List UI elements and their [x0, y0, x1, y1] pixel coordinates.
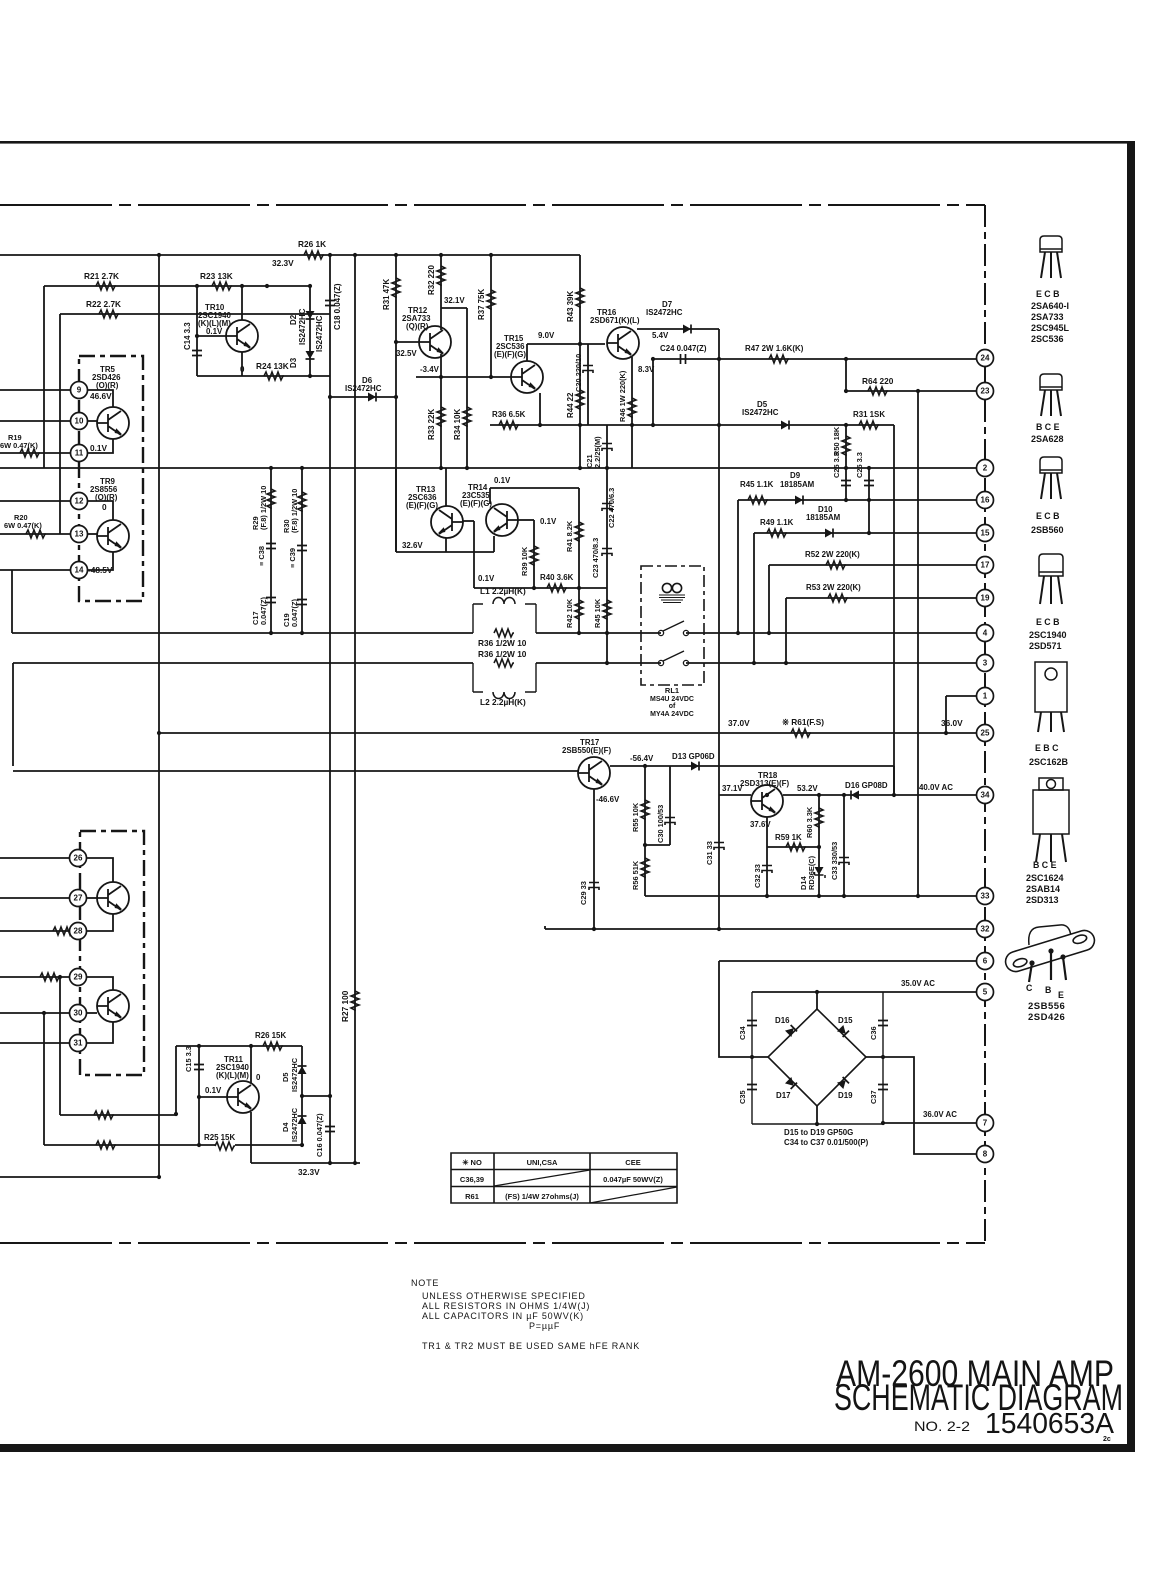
wire [579, 425, 581, 468]
terminal 33 [977, 888, 994, 905]
page frame bottom border [0, 1444, 1135, 1452]
svg-text:R44 22: R44 22 [566, 392, 575, 418]
package TO-92 group3 [1040, 457, 1062, 499]
resistor R32 220 [437, 266, 445, 286]
diode D16 bridge [785, 1025, 797, 1037]
capacitor C21 [602, 444, 612, 452]
svg-text:2: 2 [983, 464, 988, 473]
wire to TR5 collector [88, 390, 113, 407]
svg-text:32.3V: 32.3V [272, 258, 294, 268]
resistor R60 3.3K [815, 808, 823, 828]
resistor R42 10K [575, 600, 583, 620]
junction [328, 395, 332, 399]
capacitor C22 [602, 504, 612, 512]
svg-text:C29 33: C29 33 [579, 881, 588, 905]
wire [737, 500, 739, 633]
junction [197, 1143, 201, 1147]
resistor R47 [769, 355, 789, 363]
resistor R56 51K [641, 858, 649, 878]
chassis boundary top (dash-dot) [0, 204, 985, 206]
svg-text:IS2472HC: IS2472HC [742, 408, 779, 417]
junction [328, 253, 332, 257]
svg-text:(F.8) 1/2W 10: (F.8) 1/2W 10 [290, 489, 299, 533]
svg-text:(E)(F)(G): (E)(F)(G) [406, 501, 438, 510]
svg-text:R46 1W 220(K): R46 1W 220(K) [618, 370, 627, 422]
svg-text:R22 2.7K: R22 2.7K [86, 299, 121, 309]
wire [309, 286, 311, 376]
resistor R23 [212, 282, 232, 290]
terminal 17 [977, 557, 994, 574]
resistor R19 [20, 449, 40, 457]
junction [42, 1011, 46, 1015]
wire TR11 collector [250, 1046, 252, 1083]
wire [330, 396, 396, 398]
capacitor C37 [878, 1085, 888, 1090]
wire [235, 1144, 302, 1146]
junction [817, 894, 821, 898]
svg-text:0.1V: 0.1V [494, 476, 511, 485]
svg-text:C34 to C37 0.01/500(P): C34 to C37 0.01/500(P) [784, 1138, 869, 1147]
svg-text:2SAB14: 2SAB14 [1026, 884, 1060, 894]
junction [578, 342, 582, 346]
diode D7 [683, 325, 691, 334]
svg-text:R36 1/2W 10: R36 1/2W 10 [478, 638, 527, 648]
wire 37V line to terminal 25 [160, 732, 977, 734]
wire [816, 1106, 818, 1124]
svg-text:R31 47K: R31 47K [382, 279, 391, 310]
wire TR13 base [463, 520, 474, 522]
junction [643, 843, 647, 847]
wire [645, 844, 670, 846]
terminal 16 [977, 492, 994, 509]
svg-text:C30 100/53: C30 100/53 [656, 805, 665, 843]
wire to terminal 6 [719, 960, 977, 962]
resistor R31 15K [859, 421, 879, 429]
resistor R59 1K [786, 843, 806, 851]
wire [631, 425, 633, 468]
svg-text:-56.4V: -56.4V [630, 754, 654, 763]
wire [536, 632, 661, 634]
capacitor C39 [297, 546, 307, 551]
junction [881, 1121, 885, 1125]
svg-text:10: 10 [75, 417, 84, 426]
junction [489, 375, 493, 379]
svg-text:2SA640-I: 2SA640-I [1031, 301, 1069, 311]
svg-text:0.1V: 0.1V [206, 327, 223, 336]
wire to terminal 9 [0, 389, 70, 391]
svg-text:27: 27 [74, 894, 83, 903]
junction [784, 661, 788, 665]
terminal 27 [70, 890, 87, 907]
wire to TR6 collector [87, 858, 113, 882]
wire to terminal 8 [866, 1057, 977, 1154]
wire [60, 1114, 176, 1116]
wire [843, 795, 845, 896]
capacitor C16 [325, 1127, 335, 1132]
terminal 34 [977, 787, 994, 804]
junction [157, 731, 161, 735]
svg-text:2SB556: 2SB556 [1028, 1001, 1065, 1012]
junction [605, 466, 609, 470]
svg-text:P=µµF: P=µµF [529, 1321, 560, 1331]
junction [249, 1044, 253, 1048]
capacitor C25 [841, 481, 851, 486]
wire [644, 766, 646, 896]
svg-text:C34: C34 [738, 1026, 747, 1040]
svg-text:(E)(F)(G): (E)(F)(G) [494, 350, 526, 359]
svg-text:R21 2.7K: R21 2.7K [84, 271, 119, 281]
svg-text:E: E [1058, 990, 1064, 1000]
resistor R53 [828, 594, 848, 602]
wire TR17 emitter [610, 765, 894, 767]
transistor TR16 [607, 327, 639, 359]
junction [605, 661, 609, 665]
wire R40 [474, 587, 607, 589]
svg-text:UNI,CSA: UNI,CSA [527, 1158, 558, 1167]
wire C25b [868, 468, 870, 533]
svg-text:(O)(R): (O)(R) [95, 493, 118, 502]
wire R45/D9 to terminal 16 [738, 499, 977, 501]
wire [241, 352, 243, 376]
junction [308, 284, 312, 288]
junction [717, 357, 721, 361]
terminal 7 [977, 1115, 994, 1132]
resistor R55 10K [641, 800, 649, 820]
junction [439, 375, 443, 379]
svg-text:B: B [1045, 985, 1051, 995]
resistor R24 [264, 372, 284, 380]
page frame right border [1127, 141, 1135, 1452]
capacitor C24 [681, 354, 686, 364]
terminal 1 [977, 688, 994, 705]
svg-text:(E)(F)(G): (E)(F)(G) [460, 499, 492, 508]
junction [300, 631, 304, 635]
svg-text:C25 3.3: C25 3.3 [832, 452, 841, 478]
wire TR13 collector [445, 468, 447, 506]
terminal 11 [71, 445, 88, 462]
svg-text:-3.4V: -3.4V [420, 365, 440, 374]
svg-text:R26 15K: R26 15K [255, 1031, 286, 1040]
junction [328, 1094, 332, 1098]
svg-text:B C E: B C E [1036, 422, 1060, 432]
svg-text:9.0V: 9.0V [538, 331, 555, 340]
junction [592, 927, 596, 931]
resistor R45 10K [603, 600, 611, 620]
zener diode D14 [815, 867, 826, 878]
diode D10 [825, 529, 833, 538]
svg-text:IS2472HC: IS2472HC [298, 308, 307, 345]
diode D5b [298, 1066, 307, 1074]
svg-text:R33 22K: R33 22K [427, 409, 436, 440]
chassis boundary right (dash-dot) [984, 205, 986, 1243]
wire TR6 base [87, 897, 97, 899]
svg-text:D4: D4 [281, 1122, 290, 1132]
junction [577, 586, 581, 590]
terminal 8 [977, 1146, 994, 1163]
svg-text:C36,39: C36,39 [460, 1175, 484, 1184]
svg-text:25: 25 [981, 729, 990, 738]
svg-text:13: 13 [75, 530, 84, 539]
svg-text:36.0V: 36.0V [941, 718, 963, 728]
wire to C16 [302, 1095, 330, 1097]
capacitor C31 [714, 843, 724, 851]
diode D6 [368, 393, 376, 402]
svg-text:(Q)(R): (Q)(R) [406, 322, 429, 331]
resistor R26 [304, 251, 324, 259]
junction [58, 975, 62, 979]
wire to terminal 4 [686, 632, 977, 634]
wire to terminal 31 [0, 1042, 69, 1044]
resistor R39 10K [530, 546, 538, 566]
svg-text:R32 220: R32 220 [427, 265, 436, 295]
terminal 10 [71, 413, 88, 430]
wire TR18 base [719, 794, 751, 796]
wire TR16 collector to D7 [637, 328, 719, 330]
junction [538, 423, 542, 427]
package TO-220 group6 [1033, 778, 1069, 862]
junction [844, 466, 848, 470]
resistor R52 [826, 561, 846, 569]
wire long vertical D [718, 329, 720, 929]
terminal 24 [977, 350, 994, 367]
resistor R36a [494, 629, 514, 637]
capacitor C32 [762, 866, 772, 874]
svg-text:(O)(R): (O)(R) [96, 381, 119, 390]
svg-text:12: 12 [75, 497, 84, 506]
wire [196, 286, 198, 376]
junction [300, 1143, 304, 1147]
junction [197, 1044, 201, 1048]
transistor TR10 [226, 320, 258, 352]
transistor TR15 [511, 361, 543, 393]
svg-text:0: 0 [256, 1073, 261, 1082]
dashed box lower channel [80, 831, 144, 1075]
wire [785, 598, 787, 663]
spec table [451, 1153, 677, 1203]
svg-text:5: 5 [983, 988, 988, 997]
wire R21-R23 [44, 285, 310, 287]
wire TR15 base [416, 376, 511, 378]
inductor L2 box [473, 663, 536, 692]
wire TR17 base [13, 770, 578, 772]
junction [578, 423, 582, 427]
resistor R27 [351, 991, 359, 1011]
transistor TR13 [431, 506, 463, 538]
svg-text:0.047(Z): 0.047(Z) [259, 597, 268, 625]
svg-text:0.1V: 0.1V [90, 443, 108, 453]
svg-text:36.0V AC: 36.0V AC [923, 1110, 957, 1119]
svg-text:NOTE: NOTE [411, 1278, 439, 1288]
svg-text:17: 17 [981, 561, 990, 570]
svg-text:8.3V: 8.3V [638, 365, 655, 374]
wire [43, 1013, 45, 1145]
svg-text:IS2472HC: IS2472HC [290, 1107, 299, 1142]
svg-text:R34 10K: R34 10K [453, 409, 462, 440]
svg-text:C33 330/53: C33 330/53 [830, 842, 839, 880]
wire R42 [578, 588, 580, 633]
svg-text:34: 34 [981, 791, 990, 800]
svg-text:C24 0.047(Z): C24 0.047(Z) [660, 344, 707, 353]
svg-text:2.2/25(M): 2.2/25(M) [593, 436, 602, 468]
wire TR14 base [518, 519, 534, 521]
wire to terminal 7 [883, 1122, 977, 1124]
terminal 2 [977, 460, 994, 477]
wire TR12 base [396, 341, 419, 343]
svg-text:D19: D19 [838, 1091, 853, 1100]
wire to terminal 12 [0, 500, 70, 502]
wire TR11 emitter [250, 1112, 252, 1163]
resistor R43 39K [576, 288, 584, 308]
svg-text:26: 26 [74, 854, 83, 863]
wire to terminal 24 [652, 358, 977, 360]
svg-text:32.1V: 32.1V [444, 296, 465, 305]
svg-text:R47 2W 1.6K(K): R47 2W 1.6K(K) [745, 344, 804, 353]
wire [845, 359, 847, 391]
wire TR9 base [88, 533, 97, 535]
terminal 15 [977, 525, 994, 542]
wire TR7 base [87, 1012, 97, 1014]
svg-text:E B C: E B C [1035, 743, 1059, 753]
svg-text:2SD313: 2SD313 [1026, 895, 1059, 905]
wire R36 6.5K / D5 / R31 line [490, 424, 894, 426]
capacitor C23 [602, 549, 612, 557]
wire [395, 468, 397, 552]
svg-text:2SD671(K)(L): 2SD671(K)(L) [590, 316, 640, 325]
svg-text:3: 3 [983, 659, 988, 668]
svg-text:R26 1K: R26 1K [298, 239, 326, 249]
junction [844, 357, 848, 361]
svg-text:37.6V: 37.6V [750, 820, 771, 829]
svg-text:0.047(Z): 0.047(Z) [290, 599, 299, 627]
junction [892, 793, 896, 797]
wire to terminal 10 [0, 420, 70, 422]
capacitor C29 [589, 883, 599, 891]
resistor R30 [298, 492, 306, 512]
resistor R37 75K [487, 290, 495, 310]
wire C15 branch [198, 1046, 200, 1145]
wire left riser B [12, 663, 14, 766]
wire long vertical A [158, 255, 160, 1177]
resistor R64 [868, 387, 888, 395]
diode D9 [795, 496, 803, 505]
diode D2 [306, 311, 315, 319]
svg-text:D16 GP08D: D16 GP08D [845, 781, 888, 790]
junction [195, 334, 199, 338]
wire C25a [845, 468, 847, 500]
wire C21-C23 column [606, 425, 608, 663]
wire [544, 926, 546, 929]
wire left riser A [11, 570, 13, 633]
terminal 12 [71, 493, 88, 510]
svg-text:IS2472HC: IS2472HC [646, 308, 683, 317]
resistor R41 8.2K [575, 522, 583, 542]
wire to terminal 30 [0, 1012, 69, 1014]
svg-text:D3: D3 [289, 357, 298, 368]
capacitor C30 [665, 818, 675, 826]
svg-text:35.0V AC: 35.0V AC [901, 979, 935, 988]
resistor R29 [267, 489, 275, 509]
svg-text:29: 29 [74, 973, 83, 982]
svg-text:B C E: B C E [1033, 860, 1057, 870]
svg-text:D13 GP06D: D13 GP06D [672, 752, 715, 761]
svg-text:C32 33: C32 33 [753, 864, 762, 888]
svg-text:C16 0.047(Z): C16 0.047(Z) [315, 1113, 324, 1157]
svg-text:R24 13K: R24 13K [256, 361, 289, 371]
svg-text:R42 10K: R42 10K [565, 598, 574, 628]
wire long vertical C [354, 255, 356, 1163]
capacitor C33 [839, 858, 849, 866]
svg-text:R45 10K: R45 10K [593, 598, 602, 628]
transistor TR14 [486, 504, 518, 536]
terminal 19 [977, 590, 994, 607]
junction [195, 284, 199, 288]
svg-text:2c: 2c [1103, 1436, 1111, 1443]
package TO-3 flange [1003, 928, 1097, 974]
junction [577, 631, 581, 635]
svg-text:14: 14 [75, 566, 84, 575]
svg-text:0: 0 [240, 365, 245, 374]
svg-text:※ R61(F.S): ※ R61(F.S) [782, 717, 824, 727]
wire TR5 emitter [88, 439, 113, 453]
svg-text:R23 13K: R23 13K [200, 271, 233, 281]
resistor R25 15K [215, 1142, 235, 1150]
junction [717, 423, 721, 427]
junction [867, 498, 871, 502]
svg-text:R27 100: R27 100 [340, 990, 350, 1022]
svg-text:E C B: E C B [1036, 289, 1059, 299]
resistor (ch B) [40, 973, 60, 981]
svg-text:9: 9 [77, 386, 82, 395]
svg-text:R61: R61 [465, 1192, 479, 1201]
package TO-3 can dome [1029, 925, 1071, 945]
svg-text:2SC1624: 2SC1624 [1026, 873, 1064, 883]
svg-text:RL1: RL1 [665, 686, 679, 695]
svg-text:IS2472HC: IS2472HC [290, 1057, 299, 1092]
wire R43 branch [579, 255, 581, 344]
svg-text:D15 to D19 GP50G: D15 to D19 GP50G [784, 1128, 853, 1137]
svg-text:(FS) 1/4W 27ohms(J): (FS) 1/4W 27ohms(J) [505, 1192, 579, 1201]
svg-text:16: 16 [981, 496, 990, 505]
svg-text:11: 11 [75, 449, 84, 458]
wire C20 [587, 344, 589, 425]
junction [651, 423, 655, 427]
wire R59 [767, 846, 819, 848]
wire [526, 344, 528, 361]
junction [867, 466, 871, 470]
svg-text:33: 33 [981, 892, 990, 901]
wire TR14 collector [489, 488, 491, 504]
capacitor C19 [297, 600, 307, 605]
terminal 13 [71, 526, 88, 543]
svg-text:R25 15K: R25 15K [204, 1133, 235, 1142]
svg-text:R31 1SK: R31 1SK [853, 410, 885, 419]
junction [815, 1122, 819, 1126]
svg-text:MY4A 24VDC: MY4A 24VDC [650, 711, 694, 718]
wire long vertical E [917, 391, 919, 896]
diode D19 [837, 1077, 849, 1089]
wire R34 branch [466, 308, 468, 468]
junction [265, 284, 269, 288]
svg-text:C31 33: C31 33 [705, 841, 714, 865]
junction [465, 466, 469, 470]
wire to terminal 27 [0, 897, 69, 899]
diode D13 [691, 762, 699, 771]
wire long vertical B [329, 255, 331, 1163]
terminal 4 [977, 625, 994, 642]
terminal 5 [977, 984, 994, 1001]
svg-text:2SC1940: 2SC1940 [1029, 630, 1067, 640]
capacitor C20 [583, 366, 593, 374]
